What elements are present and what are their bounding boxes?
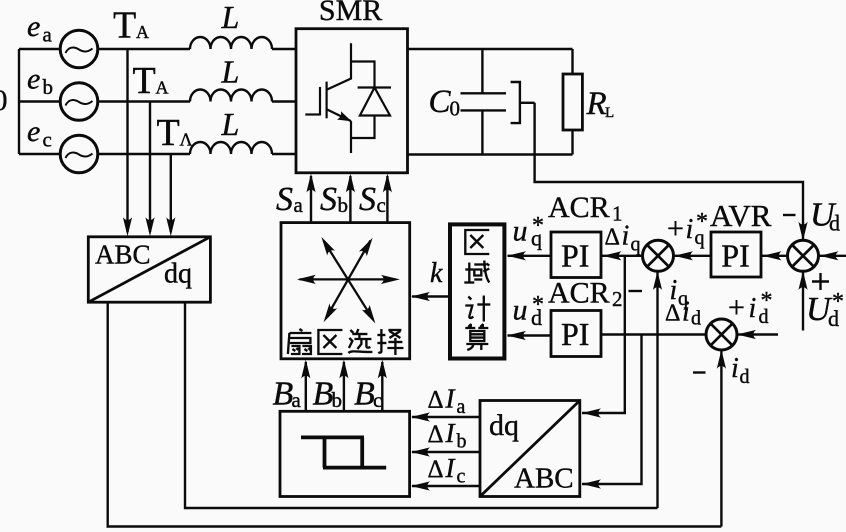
svg-text:B: B	[273, 376, 294, 413]
svg-text:Δ: Δ	[605, 225, 620, 251]
svg-text:i: i	[622, 221, 630, 252]
svg-text:b: b	[338, 193, 349, 217]
svg-text:i: i	[749, 293, 757, 324]
svg-text:C: C	[429, 84, 452, 120]
svg-text:c: c	[373, 388, 382, 412]
svg-text:d: d	[691, 308, 701, 330]
svg-text:AVR: AVR	[710, 198, 772, 233]
svg-text:T: T	[133, 60, 156, 102]
svg-text:B: B	[354, 376, 375, 413]
svg-text:L: L	[221, 106, 240, 142]
svg-text:L: L	[221, 0, 240, 35]
svg-text:A: A	[136, 22, 149, 42]
svg-text:PI: PI	[561, 238, 589, 274]
svg-text:c: c	[457, 466, 466, 488]
svg-text:d: d	[829, 211, 840, 236]
svg-text:dq: dq	[164, 259, 192, 290]
svg-text:S: S	[276, 181, 293, 218]
svg-text:B: B	[313, 376, 334, 413]
svg-text:T: T	[157, 112, 180, 154]
svg-text:k: k	[430, 258, 443, 289]
svg-text:PI: PI	[721, 238, 749, 274]
svg-text:SMR: SMR	[319, 0, 382, 27]
svg-text:e: e	[27, 115, 40, 148]
svg-text:Δ: Δ	[428, 421, 444, 448]
svg-text:i: i	[686, 214, 694, 245]
svg-text:b: b	[332, 388, 343, 412]
svg-text:Δ: Δ	[428, 456, 444, 483]
svg-text:Λ: Λ	[180, 130, 193, 150]
svg-text:i: i	[670, 275, 678, 306]
svg-text:+: +	[667, 212, 684, 245]
svg-text:b: b	[457, 431, 467, 453]
svg-text:L: L	[605, 105, 614, 121]
svg-text:0: 0	[0, 84, 8, 117]
svg-text:a: a	[294, 193, 304, 217]
svg-text:c: c	[377, 193, 386, 217]
svg-text:S: S	[320, 181, 337, 218]
svg-text:e: e	[27, 10, 40, 43]
svg-text:a: a	[292, 388, 302, 412]
svg-text:PI: PI	[561, 316, 589, 352]
svg-text:+: +	[728, 291, 745, 324]
svg-text:c: c	[43, 128, 52, 152]
svg-text:*: *	[696, 209, 708, 235]
svg-text:ACR: ACR	[548, 191, 610, 224]
svg-text:q: q	[631, 234, 641, 256]
svg-text:R: R	[586, 86, 607, 122]
svg-text:i: i	[731, 353, 739, 384]
svg-text:ABC: ABC	[95, 240, 151, 270]
svg-text:e: e	[27, 63, 40, 96]
svg-text:dq: dq	[489, 409, 519, 442]
svg-text:u: u	[513, 215, 528, 248]
svg-text:b: b	[43, 75, 54, 99]
svg-text:*: *	[532, 292, 544, 318]
svg-text:L: L	[221, 54, 240, 90]
svg-text:*: *	[832, 289, 844, 315]
svg-text:S: S	[359, 181, 376, 218]
svg-text:*: *	[761, 288, 773, 314]
svg-text:Δ: Δ	[428, 387, 444, 414]
svg-text:ABC: ABC	[514, 463, 574, 495]
svg-text:u: u	[513, 294, 528, 327]
svg-text:a: a	[43, 23, 53, 47]
svg-text:A: A	[156, 78, 169, 98]
svg-text:2: 2	[612, 287, 623, 311]
svg-text:ACR: ACR	[548, 277, 610, 310]
svg-text:*: *	[532, 213, 544, 239]
svg-text:d: d	[740, 366, 750, 388]
svg-text:T: T	[113, 5, 136, 47]
svg-text:q: q	[678, 288, 688, 310]
svg-text:0: 0	[450, 97, 461, 121]
svg-text:a: a	[457, 396, 466, 418]
